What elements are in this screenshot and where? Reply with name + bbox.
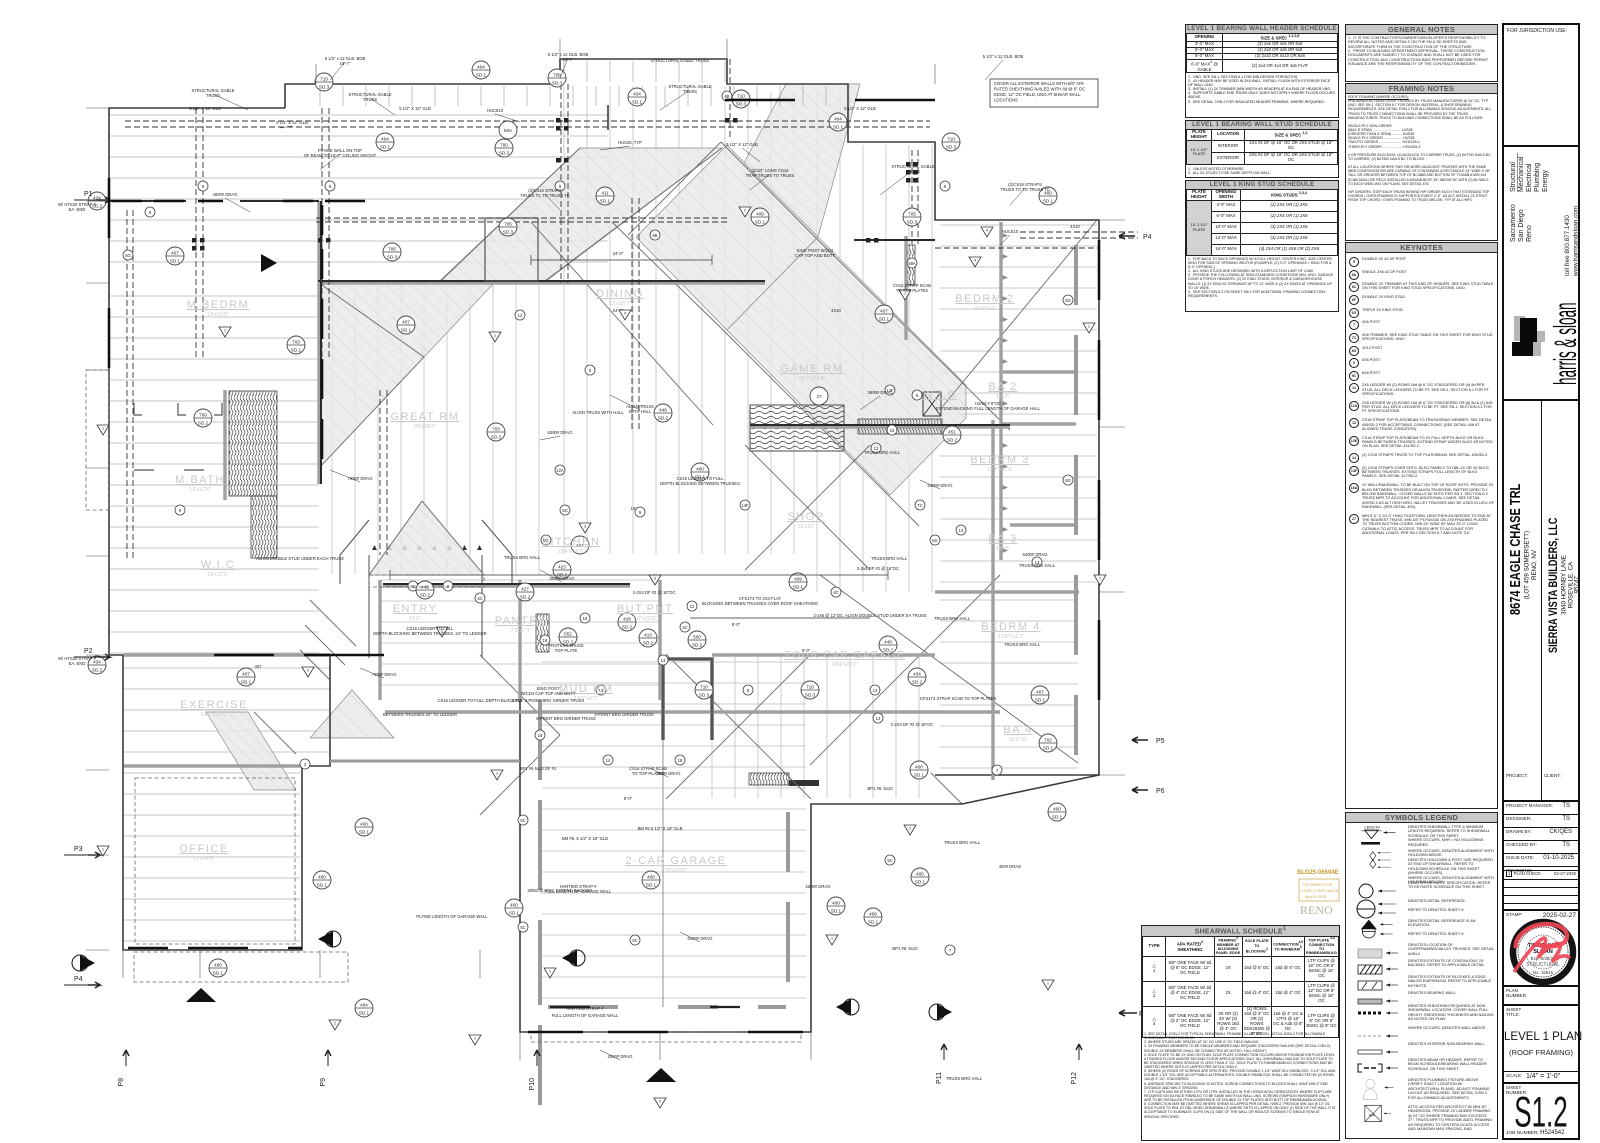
svg-text:SD.3: SD.3 (503, 230, 514, 235)
svg-text:705: 705 (504, 222, 512, 227)
hip/valley lines (254, 142, 1097, 815)
svg-text:Structural: Structural (1510, 162, 1517, 192)
svg-text:490: 490 (214, 963, 222, 968)
svg-text:14'6"x13'6": 14'6"x13'6" (200, 712, 227, 718)
svg-text:407: 407 (171, 251, 179, 256)
svg-text:SD.2: SD.2 (692, 643, 703, 648)
svg-text:SD.2: SD.2 (643, 641, 654, 646)
svg-text:Reno: Reno (1526, 225, 1533, 242)
svg-text:11'9"x11': 11'9"x11' (974, 306, 995, 312)
legend: holdown diamond (1346, 848, 1495, 880)
svg-text:April 4, 2025: April 4, 2025 (1304, 895, 1327, 899)
svg-text:5 1/2" X 12" GLB: 5 1/2" X 12" GLB (399, 106, 431, 111)
svg-text:BLOCKING BETWEEN TRUSSES OVER: BLOCKING BETWEEN TRUSSES OVER ROOF SHEAT… (702, 601, 818, 606)
svg-text:5C: 5C (520, 925, 525, 930)
svg-text:Sacramento: Sacramento (1510, 204, 1517, 242)
svg-text:703: 703 (292, 340, 300, 345)
truss span arrows right wing (1002, 233, 1008, 553)
svg-text:GAME RM: GAME RM (780, 363, 843, 375)
svg-text:4C: 4C (833, 590, 838, 595)
stamp section (1504, 909, 1578, 987)
svg-text:A/A: A/A (1369, 1114, 1376, 1118)
svg-text:SD.3: SD.3 (736, 102, 747, 107)
svg-text:TRAP TRUSS TO TRUSS: TRAP TRUSS TO TRUSS (746, 173, 795, 178)
svg-text:13'x12'6": 13'x12'6" (189, 487, 211, 493)
svg-text:SD.1: SD.1 (915, 880, 926, 885)
svg-text:413: 413 (644, 633, 652, 638)
interior bearing walls (124, 201, 1079, 780)
svg-text:P4: P4 (1143, 234, 1152, 241)
svg-text:TOP PLATE: TOP PLATE (555, 648, 578, 653)
svg-text:4C: 4C (682, 625, 687, 630)
svg-text:TRUSS TC TO TRUSS TC: TRUSS TC TO TRUSS TC (1000, 187, 1050, 192)
svg-text:ENTRY: ENTRY (393, 603, 438, 615)
svg-text:BM #6 5 1/2" X 18" GLB: BM #6 5 1/2" X 18" GLB (638, 826, 683, 831)
svg-text:Energy: Energy (1542, 169, 1549, 192)
svg-text:SD.1: SD.1 (600, 199, 611, 204)
svg-text:SD.2: SD.2 (92, 668, 103, 673)
svg-text:No. 16515: No. 16515 (1533, 970, 1554, 975)
svg-text:LOCATIONS: LOCATIONS (994, 98, 1018, 103)
plan number (1504, 985, 1578, 1006)
svg-text:3040 HORNBY LANE: 3040 HORNBY LANE (1561, 555, 1568, 615)
svg-text:428: 428 (623, 617, 631, 622)
svg-text:TRUSS BRG HALL: TRUSS BRG HALL (864, 450, 901, 455)
svg-text:13'6"x11'2": 13'6"x11'2" (998, 634, 1025, 640)
svg-text:Electrical: Electrical (1526, 163, 1533, 192)
svg-text:BUT.PNT: BUT.PNT (617, 603, 673, 615)
sheet number (1504, 1082, 1578, 1140)
svg-text:(LOT 459 SOMERSETT): (LOT 459 SOMERSETT) (1524, 531, 1531, 599)
svg-text:OFFICE: OFFICE (179, 843, 228, 855)
svg-text:SD.1: SD.1 (646, 883, 657, 888)
svg-text:EA. END: EA. END (69, 661, 86, 666)
svg-text:P11: P11 (936, 1072, 943, 1084)
svg-text:DEPTH BLOCKING BETWEEN TRUSSES: DEPTH BLOCKING BETWEEN TRUSSES (660, 481, 740, 486)
svg-text:5 1/2" X 12" GLB: 5 1/2" X 12" GLB (276, 120, 308, 125)
svg-text:5C: 5C (632, 938, 637, 943)
small backing hatch at pantry (536, 614, 549, 652)
entry tower outline (340, 520, 512, 658)
legend: overframing (1346, 942, 1495, 958)
svg-text:400# DRAG: 400# DRAG (999, 864, 1022, 869)
svg-text:SD.3: SD.3 (387, 255, 398, 260)
svg-text:SD.3: SD.3 (319, 85, 330, 90)
svg-text:9'-0": 9'-0" (624, 796, 633, 801)
svg-text:706: 706 (388, 247, 396, 252)
svg-text:SD.3: SD.3 (946, 145, 957, 150)
svg-text:2-2X4 DF #2 @ 16"OC: 2-2X4 DF #2 @ 16"OC (633, 590, 676, 595)
svg-text:TO TOP PLATES: TO TOP PLATES (632, 771, 664, 776)
detail callout bubbles (88, 61, 1066, 1017)
svg-text:SD.2: SD.2 (520, 595, 531, 600)
svg-text:SD.2: SD.2 (947, 438, 958, 443)
svg-text:2-2x4 DF #2 @ 16"OC: 2-2x4 DF #2 @ 16"OC (857, 566, 899, 571)
black section markers (72, 254, 952, 1082)
svg-text:TRUSS BRG HALL: TRUSS BRG HALL (504, 555, 541, 560)
entry porch wall (330, 760, 520, 763)
hvac platform hatch at game room (750, 405, 844, 451)
svg-text:4X10: 4X10 (831, 308, 841, 313)
svg-text:5G: 5G (1065, 478, 1071, 483)
svg-text:PANTRY: PANTRY (495, 615, 548, 627)
svg-text:3 PLY. 3-POINT BRG GIRDER TRUS: 3 PLY. 3-POINT BRG GIRDER TRUSS (512, 698, 585, 703)
gable strip webs top (320, 61, 849, 106)
truss texture exercise/office wing (horizontal) (124, 668, 330, 941)
svg-text:423: 423 (558, 565, 566, 570)
svg-text:11'2": 11'2" (409, 616, 421, 622)
legend: attic access (1346, 1104, 1495, 1137)
legend: beam/header (1346, 1057, 1495, 1077)
svg-text:TRUSS BRG HALL: TRUSS BRG HALL (944, 840, 981, 845)
svg-text:harris & sloan: harris & sloan (1549, 302, 1578, 385)
extra annotations (189, 58, 1080, 1018)
svg-text:STRUCTURAL GABLE TRUSS: STRUCTURAL GABLE TRUSS (651, 58, 710, 63)
svg-text:OF BEAM TO 16'-7" CEILING HEIG: OF BEAM TO 16'-7" CEILING HEIGHT (304, 153, 377, 158)
truss texture left wing lower (horizontal) (110, 296, 319, 653)
svg-text:8-POINT BRG GIRDER TRUSS: 8-POINT BRG GIRDER TRUSS (536, 716, 596, 721)
svg-text:13'x5': 13'x5' (996, 546, 1010, 552)
svg-text:SHOP: SHOP (787, 511, 824, 523)
svg-text:FOUR CAR GARAGE: FOUR CAR GARAGE (785, 650, 905, 661)
svg-text:HARTS00 STRAP #: HARTS00 STRAP # (566, 1006, 604, 1011)
legend: elevation marker (1346, 918, 1495, 942)
svg-text:FULL LENGTH OF GARAGE WALL: FULL LENGTH OF GARAGE WALL (552, 1013, 619, 1018)
svg-text:CFS1T4 STRAP SCAB TO TOP PLATE: CFS1T4 STRAP SCAB TO TOP PLATES (920, 696, 997, 701)
legend: bearing wall (1346, 990, 1495, 1003)
svg-text:SD.2: SD.2 (198, 421, 209, 426)
svg-text:18: 18 (678, 758, 683, 763)
svg-text:18: 18 (538, 733, 543, 738)
svg-text:18: 18 (543, 638, 548, 643)
svg-text:500: 500 (693, 635, 701, 640)
svg-text:552: 552 (564, 632, 572, 637)
info rows (1504, 800, 1578, 875)
svg-text:448: 448 (884, 640, 892, 645)
svg-text:5C: 5C (887, 858, 892, 863)
svg-text:BA 2: BA 2 (988, 381, 1017, 393)
svg-text:SD.3: SD.3 (552, 81, 563, 86)
svg-text:7'6"x12'6": 7'6"x12'6" (633, 616, 657, 622)
svg-text:5000# DRAG: 5000# DRAG (550, 576, 575, 581)
kitchen gable overframe triangle (369, 501, 484, 575)
svg-text:P9: P9 (320, 1078, 327, 1087)
svg-text:16'-7": 16'-7" (340, 61, 351, 66)
svg-text:SD.1: SD.1 (831, 909, 842, 914)
legend: sheathing non-shearwall (1346, 1003, 1495, 1025)
svg-text:3600# DRAG: 3600# DRAG (868, 390, 893, 395)
svg-text:SD.1: SD.1 (914, 773, 925, 778)
svg-text:404: 404 (834, 117, 842, 122)
svg-text:Mechanical: Mechanical (1518, 156, 1525, 192)
svg-text:ALIGN DOUBLE STUD UNDER EACH T: ALIGN DOUBLE STUD UNDER EACH TRUSS (256, 556, 344, 561)
truss texture 2-car garage (horizontal) (542, 662, 806, 998)
perimeter extension lines (86, 39, 1125, 1060)
svg-text:toll free 800.877.1430: toll free 800.877.1430 (1564, 215, 1571, 276)
truss texture top band (horizontal) (110, 115, 608, 262)
truss texture entry/mud center-bottom (380, 580, 660, 685)
svg-text:SD.1: SD.1 (213, 971, 224, 976)
svg-text:SD.1: SD.1 (1043, 746, 1054, 751)
svg-text:4X10: 4X10 (1070, 224, 1080, 229)
svg-text:703: 703 (492, 427, 500, 432)
svg-text:6B: 6B (652, 233, 657, 238)
overframing connector band top-right (744, 84, 860, 237)
svg-text:8674 EAGLE CHASE TRL: 8674 EAGLE CHASE TRL (1506, 484, 1523, 615)
svg-text:9C: 9C (410, 584, 415, 589)
svg-text:SD.1: SD.1 (632, 100, 643, 105)
consultant section (rotated firm info + harris & sloan logotype) (1504, 145, 1578, 399)
svg-text:710: 710 (806, 685, 814, 690)
svg-text:SD.3: SD.3 (499, 151, 510, 156)
wall sheathing dashes (109, 100, 1099, 1032)
svg-text:400: 400 (916, 872, 924, 877)
svg-text:SD.1: SD.1 (317, 883, 328, 888)
grid line markers P1-P12 (74, 191, 110, 203)
svg-text:5C: 5C (520, 818, 525, 823)
svg-text:409: 409 (756, 212, 764, 217)
svg-text:8'-0": 8'-0" (732, 622, 741, 627)
garage inner walls (538, 700, 542, 1105)
svg-text:5 1/2" X 12" GLB: 5 1/2" X 12" GLB (844, 106, 876, 111)
legend: shearwall triangle (1346, 824, 1495, 848)
svg-text:409: 409 (869, 912, 877, 917)
truss arrows under gable (372, 545, 482, 550)
svg-text:SD.3: SD.3 (907, 220, 918, 225)
svg-text:TRUSS: TRUSS (206, 93, 220, 98)
svg-text:BEDRM 4: BEDRM 4 (981, 621, 1040, 633)
svg-text:10'x5': 10'x5' (996, 394, 1010, 400)
small backing hatch at garage corner (749, 773, 789, 785)
svg-text:5 1/2" X 12" GLB: 5 1/2" X 12" GLB (726, 142, 758, 147)
svg-text:400: 400 (647, 875, 655, 880)
svg-text:TC: TC (917, 503, 923, 508)
svg-text:13: 13 (873, 688, 878, 693)
svg-text:SD.1: SD.1 (359, 1011, 370, 1016)
sheet title (1504, 1004, 1578, 1073)
svg-text:EXTEND BACKING FULL LENGTH OF: EXTEND BACKING FULL LENGTH OF GARAGE HAL… (936, 406, 1041, 411)
svg-text:HUC610: HUC610 (1002, 229, 1019, 234)
exterior sheathing note box (990, 79, 1098, 107)
svg-text:M.BEDRM: M.BEDRM (187, 299, 249, 311)
svg-text:SD.2: SD.2 (622, 625, 633, 630)
room name labels (175, 288, 1041, 874)
svg-text:HUS26, TYP: HUS26, TYP (618, 140, 642, 145)
dining nook outline 705 (485, 218, 538, 281)
svg-text:6400# DRAG: 6400# DRAG (688, 936, 713, 941)
dashed porch/patio outlines (86, 370, 801, 1042)
table: LEVEL 1 BEARING WALL HEADER SCHEDULE (1185, 24, 1339, 118)
svg-text:710: 710 (700, 685, 708, 690)
wic x-box (923, 392, 941, 416)
2x backing hatch at master bath (229, 391, 277, 496)
svg-text:SD.3: SD.3 (699, 693, 710, 698)
svg-text:GREAT RM: GREAT RM (390, 411, 459, 423)
svg-text:5G: 5G (932, 538, 938, 543)
svg-text:14: 14 (606, 758, 611, 763)
svg-text:ALIGN TRUSS WITH HALL: ALIGN TRUSS WITH HALL (572, 410, 624, 415)
svg-text:SD.1: SD.1 (879, 317, 890, 322)
svg-text:SD.1: SD.1 (170, 259, 181, 264)
svg-text:13'x12'6": 13'x12'6" (207, 572, 229, 578)
extra keynote circles (198, 91, 1073, 945)
svg-text:SD.2: SD.2 (912, 680, 923, 685)
entry porch overframe (310, 690, 394, 738)
scale row (1504, 1071, 1578, 1083)
svg-text:11'6"x5': 11'6"x5' (1009, 737, 1028, 743)
svg-text:14F: 14F (741, 503, 749, 508)
truss texture four-car garage + bedrm4 (vertical) (712, 600, 1078, 798)
svg-text:409: 409 (794, 577, 802, 582)
svg-text:KITCHEN: KITCHEN (542, 536, 601, 548)
plan annotation texts (58, 52, 1261, 1081)
truss texture center block (vertical) (564, 86, 932, 592)
keynote circles on plan (123, 207, 1042, 955)
legend: detail reference circle (1346, 898, 1495, 918)
svg-text:LENGTH: LENGTH (1365, 825, 1381, 829)
svg-text:P12: P12 (1071, 1072, 1078, 1085)
svg-text:427: 427 (521, 587, 529, 592)
svg-text:59A: 59A (908, 261, 916, 266)
svg-text:404: 404 (381, 137, 389, 142)
stair/closet wall loop (663, 659, 712, 740)
svg-text:400: 400 (1053, 807, 1061, 812)
jurisdiction box (1507, 28, 1567, 34)
svg-text:EDGE, 12" OC FIELD, UNO AT SHE: EDGE, 12" OC FIELD, UNO AT SHEAR WALL (994, 92, 1081, 97)
svg-text:BA 3: BA 3 (988, 533, 1017, 545)
svg-text:Plumbing: Plumbing (1534, 163, 1541, 192)
svg-text:16: 16 (890, 428, 895, 433)
svg-text:BEDRM 2: BEDRM 2 (955, 293, 1014, 305)
legend: blocked diaphragm (1346, 974, 1495, 990)
svg-text:P10: P10 (529, 1078, 536, 1091)
svg-text:12A: 12A (556, 468, 564, 473)
svg-text:SD.3: SD.3 (805, 693, 816, 698)
svg-text:407: 407 (880, 309, 888, 314)
overframing wedge below great-room wall (319, 283, 494, 468)
svg-text:700: 700 (500, 143, 508, 148)
svg-text:702: 702 (1044, 738, 1052, 743)
svg-text:59A: 59A (504, 128, 513, 133)
svg-text:SD.1: SD.1 (868, 920, 879, 925)
svg-text:400: 400 (318, 875, 326, 880)
svg-text:13: 13 (876, 716, 881, 721)
svg-text:TO TOP PLATES: TO TOP PLATES (896, 288, 928, 293)
svg-text:404: 404 (633, 92, 641, 97)
exercise overframe band (206, 712, 296, 790)
svg-text:19'2"x22'4": 19'2"x22'4" (798, 376, 825, 382)
svg-text:SD.1: SD.1 (241, 680, 252, 685)
svg-text:2-CAR GARAGE: 2-CAR GARAGE (625, 855, 726, 867)
svg-text:12: 12 (518, 313, 523, 318)
svg-text:www.harrisandsloan.com: www.harrisandsloan.com (1573, 206, 1579, 277)
strap clusters at gable ends (192, 118, 918, 251)
svg-text:SD.1: SD.1 (401, 328, 412, 333)
svg-text:SD.1: SD.1 (833, 125, 844, 130)
svg-text:TRUSS BRG HALL: TRUSS BRG HALL (1019, 563, 1056, 568)
legend: 2x backing hatch (1346, 958, 1495, 974)
svg-text:446: 446 (659, 408, 667, 413)
svg-text:12'x12': 12'x12' (797, 524, 814, 530)
svg-text:EA. END: EA. END (69, 207, 86, 212)
table: LEVEL 1 BEARING WALL STUD SCHEDULE (1185, 120, 1339, 178)
svg-text:SD.1: SD.1 (509, 911, 520, 916)
svg-text:W/CD4 CAP TOP AND BOTT: W/CD4 CAP TOP AND BOTT (521, 691, 576, 696)
svg-text:CS16 LEDGER TO FULL DEPTH BLOC: CS16 LEDGER TO FULL DEPTH BLOCKING (437, 698, 522, 703)
svg-text:710: 710 (947, 137, 955, 142)
svg-text:TRUSS BRG HALL: TRUSS BRG HALL (1004, 642, 1041, 647)
svg-text:TRUSS BRG HALL: TRUSS BRG HALL (934, 616, 971, 621)
svg-text:6400# DRAG: 6400# DRAG (1023, 552, 1048, 557)
svg-text:San Diego: San Diego (1518, 209, 1525, 242)
svg-text:451: 451 (948, 430, 956, 435)
dimension line 24ft (390, 255, 888, 618)
svg-text:SD.1: SD.1 (755, 220, 766, 225)
svg-text:P8: P8 (118, 1078, 125, 1087)
overframing band upper-left (valley) (440, 148, 722, 282)
svg-text:DINING: DINING (596, 288, 644, 300)
panel: FRAMING NOTES (1345, 83, 1498, 241)
project / client columns (1541, 399, 1542, 800)
svg-text:SD.2: SD.2 (658, 416, 669, 421)
svg-text:2-2x6 @ 12"OC, ALIGN DOUBLE ST: 2-2x6 @ 12"OC, ALIGN DOUBLE STUD UNDER E… (814, 613, 927, 618)
svg-text:REVIEWED FOR: REVIEWED FOR (1303, 883, 1333, 887)
svg-text:400: 400 (832, 901, 840, 906)
svg-text:RATED SHEATHING NAILED WITH 8d: RATED SHEATHING NAILED WITH 8d @ 6" OC (994, 87, 1085, 92)
svg-text:P6: P6 (1156, 788, 1165, 795)
table: LEVEL 1 KING STUD SCHEDULE (1185, 180, 1339, 312)
svg-text:24'-0": 24'-0" (613, 251, 624, 256)
truss texture great room (vertical) (332, 284, 539, 574)
svg-text:7'2"x7'1": 7'2"x7'1" (511, 628, 532, 634)
reno code compliance stamp (1297, 870, 1339, 917)
svg-text:TRUSS BRG HALL: TRUSS BRG HALL (871, 556, 908, 561)
svg-text:BEDRM 3: BEDRM 3 (970, 454, 1029, 466)
svg-text:WITH HALL: WITH HALL (629, 409, 652, 414)
svg-text:SD.1: SD.1 (1052, 815, 1063, 820)
svg-text:W.I.C: W.I.C (923, 389, 957, 401)
svg-text:SD.1: SD.1 (1043, 199, 1054, 204)
svg-text:SD.2: SD.2 (420, 593, 431, 598)
svg-text:13: 13 (661, 658, 666, 663)
svg-text:EXERCISE: EXERCISE (180, 699, 248, 711)
svg-text:PLYWD LENGTH OF GARAGE WALL: PLYWD LENGTH OF GARAGE WALL (416, 914, 488, 919)
svg-text:P5: P5 (1156, 738, 1165, 745)
svg-text:404: 404 (360, 1003, 368, 1008)
svg-text:400: 400 (360, 822, 368, 827)
svg-text:2-2X4 DF #2 @ 16"OC: 2-2X4 DF #2 @ 16"OC (891, 722, 934, 727)
svg-text:20'x18'4": 20'x18'4" (414, 424, 436, 430)
svg-text:COVER ALL EXTERIOR WALLS WITH: COVER ALL EXTERIOR WALLS WITH 5/8" APA (994, 81, 1084, 86)
svg-text:BP1 #6. 6x10: BP1 #6. 6x10 (867, 786, 893, 791)
svg-text:BP1 #6 6x10 DF #1: BP1 #6 6x10 DF #1 (520, 766, 557, 771)
svg-text:6B: 6B (724, 94, 729, 99)
svg-text:SD.1: SD.1 (291, 348, 302, 353)
svg-text:SD.1: SD.1 (380, 145, 391, 150)
project name rotated (1504, 399, 1578, 800)
svg-text:5G: 5G (125, 253, 131, 258)
svg-text:20'x23'6": 20'x23'6" (665, 868, 687, 874)
svg-text:TRUSS BRG HALL: TRUSS BRG HALL (946, 1076, 983, 1081)
svg-text:14'x16'6": 14'x16'6" (207, 312, 229, 318)
svg-text:FULL LENGTH OF GARAGE WALL: FULL LENGTH OF GARAGE WALL (545, 889, 612, 894)
svg-text:400: 400 (915, 765, 923, 770)
svg-text:TRUSS: TRUSS (906, 169, 920, 174)
exterior wall outline (109, 59, 1099, 1032)
svg-text:407: 407 (242, 672, 250, 677)
svg-text:BM #6, 5 1/2" X 18" GLB: BM #6, 5 1/2" X 18" GLB (562, 836, 608, 841)
svg-text:M.BATH: M.BATH (175, 474, 225, 486)
